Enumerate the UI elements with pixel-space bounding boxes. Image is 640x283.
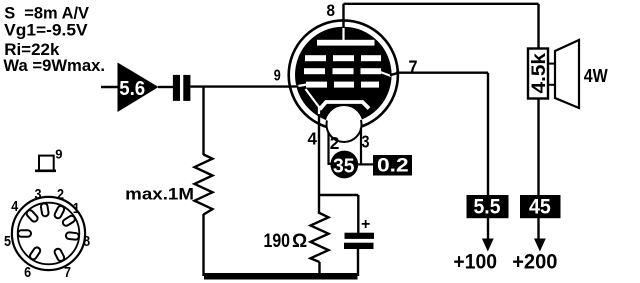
- pin 8: [66, 232, 80, 240]
- wire pin8 up: [342, 4, 344, 28]
- wire pin7 to right: [396, 71, 488, 73]
- wire pin2 to heater node: [327, 132, 329, 165]
- arrow +200: [534, 239, 546, 252]
- value box 5.5: [467, 195, 509, 218]
- svg-text:5.6: 5.6: [119, 78, 145, 100]
- svg-text:4.5k: 4.5k: [529, 53, 550, 94]
- svg-text:max.1M: max.1M: [125, 185, 194, 204]
- internal lead pin8 to anode: [342, 27, 344, 42]
- wire anode top horizontal: [344, 3, 539, 5]
- pin 1: [62, 215, 77, 227]
- wire capacitor top lead: [357, 195, 359, 234]
- svg-text:8: 8: [327, 1, 336, 20]
- svg-text:Wa =9Wmax.: Wa =9Wmax.: [3, 56, 105, 75]
- svg-text:0.2: 0.2: [377, 156, 409, 177]
- wire triangle to capacitor: [158, 86, 173, 88]
- node junction grid/1M: [202, 87, 204, 155]
- capacitor electrolytic plate bottom: [344, 243, 374, 249]
- tube V1 envelope: [289, 20, 398, 129]
- wire down to transformer: [537, 4, 539, 50]
- wire input stub: [101, 86, 118, 88]
- capacitor electrolytic plate top: [345, 233, 375, 239]
- svg-text:7: 7: [409, 58, 418, 78]
- svg-text:+: +: [361, 216, 370, 233]
- svg-text:35: 35: [333, 156, 355, 178]
- pin 7: [54, 248, 66, 263]
- pin 6: [29, 246, 42, 260]
- wire 35 to 0.2 box: [357, 163, 373, 165]
- wire pin7 branch down: [487, 73, 489, 240]
- grid g1 row (bottom): [306, 82, 327, 88]
- ground bus bar: [204, 273, 358, 280]
- heater circle: [327, 107, 362, 142]
- node 35 heater voltage circle: [330, 151, 358, 179]
- svg-text:1: 1: [73, 200, 80, 217]
- svg-text:3: 3: [362, 132, 370, 152]
- internal lead cathode to pin4: [318, 106, 320, 121]
- wire transformer down: [537, 98, 539, 240]
- internal lead g3 to cathode: [306, 89, 320, 107]
- svg-text:2: 2: [57, 186, 64, 203]
- svg-text:4: 4: [308, 128, 318, 148]
- anode plate: [317, 40, 375, 46]
- capacitor C1 coupling: [173, 75, 180, 101]
- socket top cap square: [39, 156, 54, 171]
- transformer primary 4.5k: [528, 49, 548, 99]
- wire 190 to bus: [318, 262, 320, 276]
- pin 3: [40, 203, 49, 217]
- svg-text:+200: +200: [512, 251, 557, 274]
- internal lead pin7 to screen grid: [379, 72, 391, 77]
- svg-text:45: 45: [529, 196, 551, 219]
- internal lead pin9 to grid: [295, 85, 307, 87]
- pin 5: [18, 230, 31, 237]
- speaker horn: [555, 40, 579, 108]
- wire pin3 down: [360, 128, 362, 165]
- value box 0.2 heater current: [373, 155, 412, 176]
- resistor 190 ohm: [311, 213, 329, 262]
- speaker stub wires: [548, 63, 556, 65]
- svg-text:4W: 4W: [584, 65, 608, 86]
- wire capacitor to tube grid pin 9: [190, 85, 290, 87]
- svg-text:190: 190: [264, 231, 291, 252]
- socket inner circle: [18, 203, 80, 265]
- wire pin9 ring stub: [289, 85, 299, 88]
- wire branch cathode to capacitor: [319, 194, 358, 196]
- svg-text:7: 7: [64, 264, 71, 281]
- tube V1 inner black body: [295, 27, 392, 124]
- svg-text:6: 6: [24, 264, 31, 281]
- grid g2 row (top): [305, 55, 326, 61]
- cathode: [320, 102, 370, 110]
- svg-text:8: 8: [83, 233, 90, 250]
- arrow +100: [482, 239, 494, 252]
- svg-text:2: 2: [330, 133, 340, 153]
- wire 1M to ground bus: [202, 214, 204, 276]
- wire pin2 stub to node: [328, 163, 333, 165]
- svg-text:9: 9: [55, 146, 62, 161]
- grid g row (middle): [304, 68, 325, 74]
- wire capacitor bottom lead: [357, 249, 359, 277]
- svg-text:Ω: Ω: [292, 231, 307, 252]
- pin 4: [25, 209, 39, 223]
- svg-text:9: 9: [274, 68, 281, 85]
- input source triangle 5.6: [118, 63, 159, 113]
- resistor max.1M: [195, 155, 213, 215]
- svg-text:3: 3: [35, 186, 42, 203]
- svg-text:+100: +100: [453, 251, 497, 274]
- pin 2: [54, 205, 66, 220]
- svg-text:Vg1=-9.5V: Vg1=-9.5V: [4, 20, 88, 39]
- svg-text:5: 5: [4, 233, 11, 250]
- value box 45: [520, 195, 561, 218]
- svg-text:4: 4: [11, 198, 19, 215]
- wire pin7 ring stub: [390, 73, 399, 75]
- svg-text:5.5: 5.5: [474, 196, 501, 219]
- socket pins: [18, 203, 79, 262]
- wire pin4 cathode down: [318, 114, 320, 214]
- socket outer circle: [12, 197, 85, 270]
